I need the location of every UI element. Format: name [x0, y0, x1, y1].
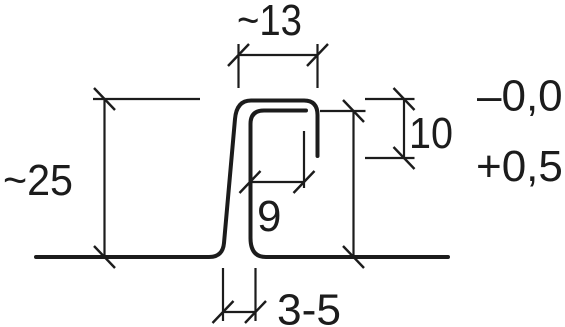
svg-text:+0,5: +0,5 [476, 142, 563, 191]
svg-text:10: 10 [409, 109, 453, 158]
svg-text:~25: ~25 [3, 156, 73, 205]
svg-text:9: 9 [257, 192, 281, 241]
svg-text:~13: ~13 [237, 0, 302, 45]
svg-text:3-5: 3-5 [277, 286, 341, 327]
svg-text:–0,0: –0,0 [477, 72, 563, 121]
